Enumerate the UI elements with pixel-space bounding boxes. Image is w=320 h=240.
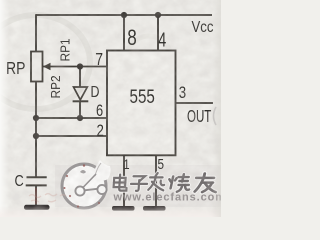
wire Vcc top rail <box>36 14 212 16</box>
logo node small circle left <box>75 186 84 195</box>
logo connecting bar <box>85 189 98 191</box>
paper background <box>0 0 221 217</box>
watermark logo circle (elecfans) <box>62 160 111 208</box>
op-amp/timer IC U1 555 body <box>107 51 176 156</box>
ring speckles <box>64 164 101 207</box>
faint smudge near 555 top <box>127 36 171 80</box>
ground (capacitor C) <box>24 205 50 210</box>
faint watermark arc right edge <box>214 107 217 125</box>
potentiometer RP wiper arrow <box>43 63 51 70</box>
junction node wiper/diode <box>77 63 83 69</box>
watermark band shading <box>55 165 221 207</box>
wire pin4 drop <box>157 15 159 51</box>
junction node top pin8 <box>121 12 127 18</box>
wire RP wiper to pin7 <box>43 66 107 68</box>
wire left rail top (Vcc to RP) <box>35 14 37 51</box>
wire RP bottom to capacitor C <box>35 82 37 178</box>
paper edge shading <box>0 0 9 217</box>
wire pin2 to left rail <box>36 135 107 137</box>
wire diode anode <box>79 67 81 88</box>
junction node rail/pin2 <box>33 133 39 139</box>
reddish tint on cap ground lead <box>35 188 37 204</box>
junction node diode/pin6 <box>77 115 83 121</box>
potentiometer RP body <box>31 52 43 82</box>
faint pink residue text bottom-left <box>29 194 66 203</box>
logo node small circle right <box>97 185 106 194</box>
logo flag swoosh <box>92 160 111 181</box>
capacitor C plates <box>27 176 47 178</box>
diode D symbol <box>74 87 88 100</box>
faint background watermark ellipse (left) <box>0 15 90 109</box>
ground (pin 1) <box>112 206 135 211</box>
junction node top pin4 <box>155 12 161 18</box>
logo needle <box>83 174 97 188</box>
wire diode cathode to pin6 node <box>79 102 81 119</box>
wire pin1 to ground <box>123 155 125 206</box>
ground (pin 5) <box>143 206 166 211</box>
junction node rail/pin6 <box>33 115 39 121</box>
wire capacitor C to ground <box>35 186 37 206</box>
wire pin8 drop <box>123 15 125 51</box>
wire pin5 to ground <box>155 155 157 206</box>
wire pin3 output <box>176 102 214 104</box>
wire pin6 to left rail <box>36 117 107 119</box>
scan grain overlay <box>0 0 221 217</box>
